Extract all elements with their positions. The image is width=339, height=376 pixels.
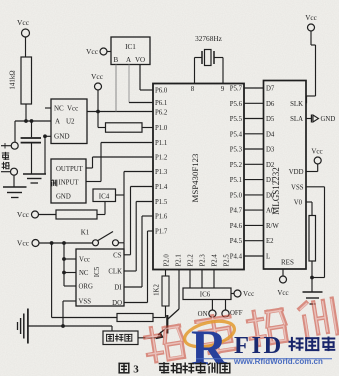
svg-text:Vcc: Vcc (17, 210, 30, 219)
svg-text:P1.3: P1.3 (155, 169, 168, 176)
svg-text:P5.1: P5.1 (230, 177, 242, 184)
svg-text:CS: CS (113, 253, 122, 260)
svg-text:P4.4: P4.4 (230, 254, 243, 261)
svg-text:Vcc: Vcc (17, 18, 30, 27)
svg-text:Vcc: Vcc (67, 105, 78, 113)
svg-text:P5.7: P5.7 (230, 86, 243, 93)
wire DO to P1.7 (124, 231, 153, 303)
svg-text:P1.7: P1.7 (155, 229, 168, 236)
op-amp U2 box (51, 99, 87, 144)
svg-text:OUTPUT: OUTPUT (56, 166, 84, 173)
pin GND wire (43, 134, 51, 174)
caption figure 3 (119, 363, 230, 376)
svg-text:IC1: IC1 (125, 43, 136, 51)
svg-text:D5: D5 (266, 116, 275, 123)
wire K1 to CS (119, 243, 125, 255)
svg-text:B: B (114, 56, 119, 64)
svg-text:P5.3: P5.3 (230, 147, 243, 154)
svg-text:MSP430F123: MSP430F123 (190, 153, 200, 202)
resistor R5 (309, 216, 316, 293)
power Vcc (top right) (305, 14, 317, 31)
watermark url (196, 357, 332, 366)
wire Vcc bus x64 (62, 243, 76, 286)
wire R4 to IC4 (97, 202, 105, 215)
svg-text:Vcc: Vcc (243, 290, 254, 298)
svg-text:P2.0: P2.0 (163, 254, 170, 267)
wire bus x51 (52, 243, 117, 318)
svg-text:P4.6: P4.6 (230, 223, 243, 230)
terminal T1 (1, 142, 18, 149)
wire OUTPUT to P1.2 (86, 157, 153, 168)
lcd right pin labels (281, 101, 304, 267)
wires data bus MCU to LCD (244, 88, 264, 256)
watermark RFID logo (182, 317, 237, 375)
power Vcc (IC6) (231, 290, 254, 298)
sensor IC1 box (111, 37, 150, 65)
svg-text:P1.2: P1.2 (155, 155, 168, 162)
svg-text:P6.1: P6.1 (155, 100, 167, 107)
watermark FID text (234, 332, 284, 359)
svg-text:1K2: 1K2 (154, 284, 161, 296)
ground G2 (3, 187, 27, 198)
button ON (198, 300, 216, 319)
svg-text:P1.1: P1.1 (155, 140, 167, 147)
resistor R4 (56, 210, 97, 219)
svg-text:P1.0: P1.0 (155, 125, 168, 132)
wire IC1.B down (115, 65, 117, 112)
wire IC1.VO to P6.0 (140, 65, 153, 91)
transistor Q1 (138, 270, 179, 340)
wire (98, 112, 106, 128)
switch K1 (81, 229, 119, 246)
lcd U3 MLGS12232 box (264, 81, 307, 270)
svg-text:GND: GND (54, 133, 70, 141)
wire (13, 175, 15, 187)
svg-text:IC5: IC5 (93, 266, 101, 277)
pin NC stub (45, 107, 51, 109)
svg-text:ORG: ORG (79, 284, 93, 291)
wire INPUT to P1.1 (86, 143, 153, 182)
svg-text:V0: V0 (294, 200, 303, 207)
wire CLK to P1.5 (124, 202, 153, 272)
svg-text:Vcc: Vcc (79, 257, 90, 264)
watermark sjw chars (290, 338, 335, 351)
svg-text:D3: D3 (266, 147, 275, 154)
wires P2.2-P2.4 to IC6 (190, 270, 214, 289)
terminal T2 (1, 168, 18, 175)
wire V0 (306, 202, 312, 216)
mcu bottom pin labels P2.0-P2.5 (163, 254, 230, 267)
svg-text:P1.5: P1.5 (155, 199, 168, 206)
power Vcc (above U2) (91, 72, 104, 90)
pin RES to Vcc (277, 269, 288, 297)
resistor R1 141k (9, 57, 32, 104)
svg-text:D7: D7 (266, 86, 275, 93)
svg-text:E2: E2 (266, 238, 274, 245)
svg-text:D1: D1 (266, 177, 274, 184)
resistor R6 1K2 (154, 270, 170, 318)
label probe (rotated) (2, 152, 9, 168)
svg-text:P6.2: P6.2 (155, 110, 168, 117)
wire ground rail (28, 326, 112, 331)
svg-text:DI: DI (114, 285, 122, 292)
mcu right pin labels (230, 86, 243, 261)
svg-text:IC6: IC6 (200, 291, 211, 299)
gnd buffer at SLA (306, 115, 335, 124)
mcu left pin labels (155, 88, 168, 236)
power Vcc (top-left) (17, 18, 30, 37)
eeprom IC5 box (76, 249, 124, 307)
svg-text:P1.4: P1.4 (155, 184, 168, 191)
svg-text:SLA: SLA (290, 116, 303, 123)
svg-text:32768Hz: 32768Hz (195, 34, 223, 43)
power Vcc (rail) (17, 239, 39, 248)
buzzer box (103, 331, 138, 345)
pin 8 (191, 85, 195, 93)
svg-text:P4.5: P4.5 (230, 238, 243, 245)
svg-text:P5.6: P5.6 (230, 101, 243, 108)
wire DI to P1.6 (124, 216, 153, 287)
power Vcc (row 214) (17, 210, 56, 219)
power Vcc (VDD) (306, 148, 323, 172)
wire probe drop (14, 121, 16, 142)
wire IC4 to P1.3 (116, 172, 154, 243)
svg-text:VO: VO (135, 56, 145, 64)
wire (25, 37, 27, 57)
svg-text:P2.4: P2.4 (211, 254, 218, 267)
button OFF (222, 300, 243, 318)
pin 9 (221, 85, 225, 93)
svg-text:P6.0: P6.0 (155, 88, 168, 95)
wire U2 to P6.2 (87, 111, 153, 113)
svg-text:D2: D2 (266, 162, 275, 169)
svg-text:P4.7: P4.7 (230, 208, 243, 215)
svg-text:P5.4: P5.4 (230, 131, 243, 138)
crystal Y1 32768Hz (195, 34, 224, 84)
regulator IC3 box (51, 159, 86, 203)
svg-text:VSS: VSS (79, 299, 92, 306)
svg-text:SLK: SLK (290, 101, 303, 108)
wire rail (39, 241, 93, 245)
lcd left pin labels (266, 86, 279, 261)
capacitor C1 (21, 121, 41, 174)
wire (25, 104, 27, 121)
svg-text:P2.2: P2.2 (187, 254, 194, 267)
svg-text:GND: GND (321, 116, 336, 123)
svg-text:A0: A0 (266, 208, 275, 215)
ground G4 (303, 292, 323, 304)
svg-text:A: A (55, 118, 60, 126)
svg-text:VDD: VDD (289, 169, 304, 176)
svg-text:ON: ON (198, 311, 208, 318)
svg-text:Vcc: Vcc (305, 14, 317, 22)
svg-text:D4: D4 (266, 131, 275, 138)
svg-text:www.RfidWorld.com.cn: www.RfidWorld.com.cn (233, 357, 323, 366)
svg-text:NC: NC (54, 105, 64, 113)
wire Vcc to SLK (306, 31, 316, 103)
capacitor IC4 box (93, 189, 116, 202)
svg-text:RES: RES (281, 259, 294, 267)
ground G1 (23, 174, 46, 183)
svg-text:D0: D0 (266, 192, 275, 199)
svg-text:D6: D6 (266, 101, 275, 108)
resistor R3 (106, 123, 143, 132)
svg-text:A: A (126, 56, 131, 64)
watermark red text (144, 297, 338, 363)
svg-text:Vcc: Vcc (277, 289, 288, 297)
wire to U2 pin A (15, 120, 51, 122)
wire VSS to ground (61, 301, 76, 328)
resistor R2 (117, 314, 166, 322)
svg-text:141kΩ: 141kΩ (9, 70, 17, 89)
power Vcc (left of IC1) (86, 47, 111, 56)
wire IC1.A to P6.1 (129, 65, 153, 103)
svg-text:Vcc: Vcc (311, 148, 322, 156)
svg-text:P2.3: P2.3 (199, 254, 206, 267)
svg-text:P2.5: P2.5 (223, 254, 230, 267)
svg-text:P5.0: P5.0 (230, 192, 243, 199)
wire VSS down right (306, 187, 325, 280)
wire (96, 90, 100, 113)
svg-text:P1.6: P1.6 (155, 214, 168, 221)
wire CS to P1.4 (124, 187, 153, 255)
svg-text:P2.1: P2.1 (175, 254, 182, 266)
wire to P1.0 (142, 127, 153, 129)
svg-text:R/W: R/W (266, 223, 279, 230)
svg-text:3: 3 (133, 364, 139, 376)
svg-text:P5.5: P5.5 (230, 116, 243, 123)
mcu U1 MSP430F123 box (153, 84, 244, 270)
svg-text:OFF: OFF (230, 310, 243, 317)
ground G3 (18, 309, 28, 344)
svg-text:P5.2: P5.2 (230, 162, 243, 169)
svg-text:VSS: VSS (291, 184, 304, 191)
svg-text:Vcc: Vcc (17, 239, 30, 248)
svg-text:Vcc: Vcc (86, 47, 99, 56)
svg-text:INPUT: INPUT (59, 180, 80, 187)
svg-text:9: 9 (221, 85, 225, 93)
svg-text:K1: K1 (81, 229, 90, 237)
svg-text:GND: GND (56, 194, 71, 201)
svg-text:L: L (266, 254, 270, 261)
svg-text:IC4: IC4 (99, 193, 110, 201)
svg-text:8: 8 (191, 85, 195, 93)
svg-text:FID: FID (234, 332, 284, 359)
svg-text:Vcc: Vcc (91, 72, 104, 81)
node junction (24, 119, 33, 123)
svg-text:CLK: CLK (108, 269, 122, 276)
svg-text:NC: NC (79, 270, 89, 277)
switch block IC6 (183, 288, 231, 300)
svg-text:U2: U2 (66, 118, 75, 126)
svg-text:DO: DO (112, 300, 122, 307)
